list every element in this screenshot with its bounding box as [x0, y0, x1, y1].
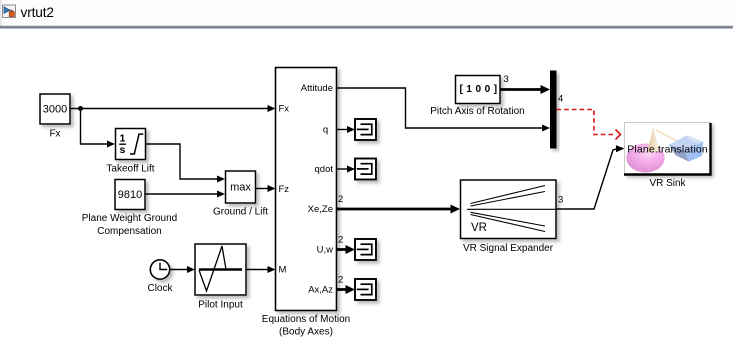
wire Takeoff Lift to max input 1	[146, 144, 226, 183]
wire Pilot Input to M port	[246, 266, 276, 273]
terminator block (q)	[355, 119, 376, 140]
svg-text:Plane Weight Ground: Plane Weight Ground	[82, 213, 177, 224]
svg-text:3: 3	[504, 74, 509, 85]
wire 9810 to max input 2	[145, 191, 225, 198]
terminator block (Ax,Az)	[355, 279, 376, 300]
svg-text:1: 1	[119, 133, 125, 145]
svg-text:2: 2	[338, 275, 343, 286]
clock block	[150, 260, 169, 279]
signal width label 3 (pitch axis wire)	[504, 74, 509, 85]
svg-text:[ 1 0 0 ]: [ 1 0 0 ]	[459, 84, 497, 95]
title bar model icon	[3, 5, 16, 18]
wire qdot to terminator	[337, 166, 356, 173]
terminator block (qdot)	[355, 159, 376, 180]
light ray from cone to box	[656, 130, 681, 143]
wire Ax,Az to terminator (vector, thick)	[337, 285, 356, 294]
title separator line	[0, 25, 733, 28]
svg-text:U,w: U,w	[317, 245, 334, 256]
label VR Signal Expander	[463, 243, 554, 254]
pink ellipsoid	[626, 144, 664, 173]
constant block 9810	[115, 180, 145, 210]
signal width label 3 (expander output)	[558, 195, 563, 206]
wire Clock to Pilot Input	[170, 266, 195, 273]
svg-text:Fx: Fx	[49, 129, 60, 140]
label Pitch Axis of Rotation	[430, 106, 525, 117]
svg-text:Ground / Lift: Ground / Lift	[213, 207, 268, 218]
svg-text:Fx: Fx	[279, 104, 290, 115]
svg-text:3: 3	[558, 195, 563, 206]
wire branch to Takeoff Lift	[81, 109, 116, 148]
wire Attitude to Mux input 2	[337, 88, 551, 132]
label Fx (under 3000)	[49, 129, 60, 140]
svg-text:2: 2	[338, 194, 343, 205]
svg-text:Equations of Motion: Equations of Motion	[262, 314, 350, 325]
signal width label 4 (mux output)	[558, 94, 563, 105]
Equations of Motion block	[276, 68, 337, 311]
signal width label 2 (Ax,Az)	[338, 275, 343, 286]
svg-text:VR Signal Expander: VR Signal Expander	[463, 243, 554, 254]
junction node on Fx wire	[78, 106, 83, 111]
label Equations of Motion (Body Axes)	[262, 314, 350, 338]
svg-text:Ax,Az: Ax,Az	[308, 285, 333, 296]
svg-text:2: 2	[338, 235, 343, 246]
svg-text:Clock: Clock	[147, 283, 173, 294]
VR Sink block	[624, 123, 711, 175]
limited integrator block Takeoff Lift	[116, 129, 146, 160]
svg-text:vrtut2: vrtut2	[21, 5, 54, 20]
title bar background	[0, 0, 733, 26]
wire q to terminator	[337, 126, 356, 133]
red dashed virtual wire mux to VR Sink	[557, 110, 621, 140]
max block Ground / Lift	[226, 171, 256, 203]
terminator block (U,w)	[355, 239, 376, 260]
svg-text:Plane.translation: Plane.translation	[627, 144, 708, 156]
svg-text:3000: 3000	[43, 104, 67, 116]
signal width label 2 (U,w)	[338, 235, 343, 246]
signal width label 2 (Xe,Ze)	[338, 194, 343, 205]
wire [1 0 0] to Mux input 1 (vector, thick)	[500, 85, 550, 94]
VR Signal Expander block	[461, 180, 557, 239]
wire Xe,Ze to VR Signal Expander (vector, thick)	[337, 205, 461, 214]
constant block [ 1 0 0 ]	[456, 76, 501, 104]
cone	[647, 128, 660, 153]
mux block (vertical bar)	[550, 71, 557, 149]
svg-text:Pitch Axis of Rotation: Pitch Axis of Rotation	[430, 106, 525, 117]
svg-text:qdot: qdot	[315, 164, 334, 175]
blue 3d box	[669, 135, 703, 150]
label VR Sink	[649, 178, 686, 189]
svg-text:VR: VR	[471, 222, 487, 234]
svg-text:M: M	[279, 265, 287, 276]
wire 3000 to Fx port	[70, 105, 276, 112]
constant block 3000	[40, 94, 70, 124]
label Clock	[147, 283, 173, 294]
wire U,w to terminator (vector, thick)	[337, 245, 356, 254]
label Plane Weight Ground Compensation	[82, 213, 177, 237]
label Ground / Lift	[213, 207, 268, 218]
wire max to Fz port	[256, 185, 276, 192]
svg-text:Pilot Input: Pilot Input	[198, 300, 243, 311]
svg-text:(Body Axes): (Body Axes)	[279, 327, 333, 338]
svg-text:q: q	[323, 124, 328, 135]
label Pilot Input	[198, 300, 243, 311]
label Takeoff Lift	[106, 164, 154, 175]
svg-text:s: s	[119, 144, 125, 156]
subsystem block Pilot Input	[195, 244, 246, 295]
svg-text:Fz: Fz	[279, 184, 290, 195]
svg-text:max: max	[230, 182, 251, 194]
svg-text:4: 4	[558, 94, 563, 105]
svg-text:Compensation: Compensation	[97, 226, 161, 237]
svg-text:Xe,Ze: Xe,Ze	[308, 204, 333, 215]
black right/bottom border (drop shadow style)	[624, 123, 711, 175]
svg-text:Attitude: Attitude	[301, 83, 333, 94]
svg-text:Takeoff Lift: Takeoff Lift	[106, 164, 154, 175]
svg-text:VR Sink: VR Sink	[649, 178, 686, 189]
wire VR Signal Expander to VR Sink	[556, 145, 625, 209]
svg-text:9810: 9810	[118, 189, 142, 201]
title text vrtut2	[21, 5, 54, 20]
